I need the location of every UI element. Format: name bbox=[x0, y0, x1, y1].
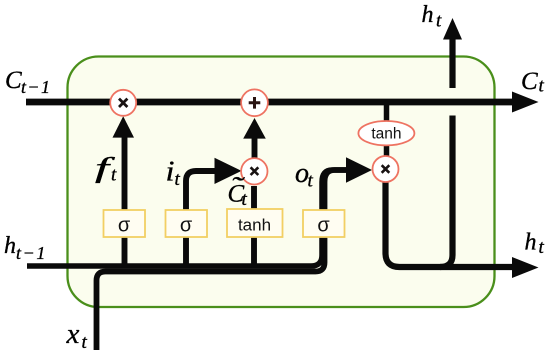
op: multiply on C line (forget) bbox=[110, 90, 136, 116]
gate box: sigma forget bbox=[104, 210, 146, 237]
svg-text:t: t bbox=[539, 76, 545, 97]
svg-text:C: C bbox=[521, 68, 538, 95]
arrowhead: f into multiply bbox=[113, 116, 135, 137]
arrowhead: o_t into multiply bbox=[346, 157, 372, 182]
svg-text:h: h bbox=[4, 233, 16, 259]
op: multiply candidate bbox=[241, 158, 267, 184]
label: h_{t-1} bbox=[4, 233, 47, 263]
svg-text:h: h bbox=[525, 230, 537, 256]
label: i_t bbox=[166, 157, 181, 191]
label: f_t bbox=[95, 153, 117, 186]
LSTM cell body bbox=[68, 57, 495, 308]
label: h_t right bbox=[525, 230, 545, 259]
arrowhead: h_t output right bbox=[512, 257, 539, 278]
wire: h_t branch up from output line bbox=[440, 116, 453, 268]
wire: tanh oval to output multiply bbox=[384, 144, 390, 157]
arrowhead: i_t into multiply bbox=[215, 158, 242, 184]
wire: h_{t-1} input line bbox=[27, 226, 322, 266]
svg-text:x: x bbox=[66, 318, 80, 350]
svg-text:tanh: tanh bbox=[371, 126, 401, 143]
label: C_t bbox=[521, 68, 545, 97]
label: candidate C tilde bbox=[228, 172, 248, 211]
svg-text:t−1: t−1 bbox=[16, 243, 47, 263]
svg-text:t: t bbox=[175, 169, 181, 190]
svg-text:tanh: tanh bbox=[238, 216, 271, 235]
svg-text:C: C bbox=[5, 67, 22, 94]
label: x_t bbox=[66, 318, 88, 353]
svg-text:i: i bbox=[166, 157, 175, 188]
wire: candidate multiply up to add bbox=[252, 137, 258, 159]
wire: input gate branch i bbox=[186, 171, 216, 266]
svg-text:σ: σ bbox=[317, 215, 330, 237]
svg-text:t: t bbox=[308, 171, 314, 192]
label: o_t bbox=[295, 158, 314, 192]
svg-text:t: t bbox=[82, 332, 88, 353]
wire: h_t up segment above C line bbox=[449, 38, 455, 88]
wire: candidate branch through tanh box bbox=[251, 186, 257, 266]
svg-text:t−1: t−1 bbox=[21, 77, 51, 97]
label: C_{t-1} bbox=[5, 67, 51, 97]
wire: o branch upper overlap bbox=[322, 170, 347, 230]
label: h_t top bbox=[422, 2, 443, 32]
gate box: sigma output bbox=[303, 210, 345, 237]
op: add on C line bbox=[241, 89, 268, 116]
arrowhead: C_t output right bbox=[512, 92, 539, 113]
wire: output multiply down and right to h_t bbox=[386, 181, 514, 267]
svg-text:t: t bbox=[111, 165, 117, 186]
op: multiply output bbox=[373, 156, 399, 182]
svg-text:σ: σ bbox=[118, 215, 131, 237]
svg-text:t: t bbox=[436, 11, 442, 32]
svg-text:h: h bbox=[422, 2, 434, 28]
wire: cell state line C_{t-1} to C_t bbox=[26, 99, 513, 106]
svg-text:t: t bbox=[242, 189, 248, 210]
op: tanh oval bbox=[358, 121, 414, 145]
wire: C line down into tanh oval bbox=[384, 102, 390, 122]
arrowhead: into add circle bbox=[243, 118, 266, 139]
svg-text:t: t bbox=[539, 237, 545, 258]
wire: forget gate branch f bbox=[122, 134, 128, 266]
arrowhead: h_t output top bbox=[443, 18, 462, 40]
gate box: tanh candidate bbox=[227, 209, 283, 237]
gate box: sigma input bbox=[166, 210, 208, 237]
svg-text:σ: σ bbox=[180, 215, 193, 237]
wire: x_t input line rising and merging, through sigma to output gate arrow bbox=[97, 170, 348, 350]
